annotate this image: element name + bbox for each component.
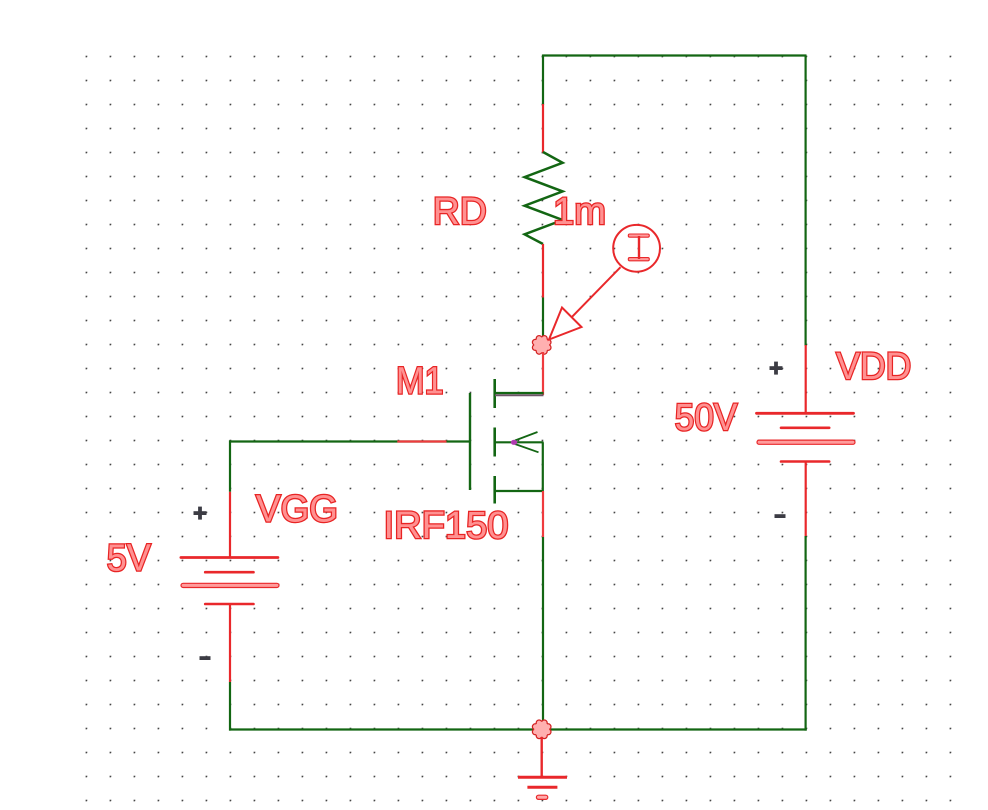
wire right vertical upper: [804, 56, 806, 347]
wire source to ground rail: [542, 537, 544, 722]
wire left vertical lower: [229, 682, 231, 731]
battery VDD: [757, 345, 856, 536]
wire drain node to MOSFET: [542, 352, 544, 395]
wire bottom horizontal: [229, 728, 807, 730]
wire top horizontal: [543, 54, 807, 56]
wire right vertical lower: [804, 536, 806, 731]
battery VGG: [181, 492, 279, 682]
current probe I: [549, 225, 660, 340]
wire gate horizontal: [229, 440, 470, 442]
resistor RD: [525, 104, 563, 298]
wire left vertical upper: [229, 440, 231, 491]
transistor M1: [470, 379, 544, 504]
svg-text:1m: 1m: [553, 191, 606, 233]
wire source red lead: [542, 491, 544, 537]
svg-text:VGG: VGG: [256, 489, 338, 531]
svg-text:M1: M1: [396, 360, 444, 402]
svg-text:RD: RD: [433, 191, 487, 233]
svg-text:50V: 50V: [675, 397, 738, 439]
wire top rail to resistor: [542, 55, 544, 106]
svg-text:VDD: VDD: [836, 346, 911, 388]
wire resistor to drain node: [542, 298, 544, 338]
svg-text:5V: 5V: [107, 538, 152, 580]
ground: [518, 737, 567, 799]
svg-text:IRF150: IRF150: [384, 505, 509, 547]
node drain junction: [532, 336, 551, 355]
node ground junction: [532, 720, 551, 739]
